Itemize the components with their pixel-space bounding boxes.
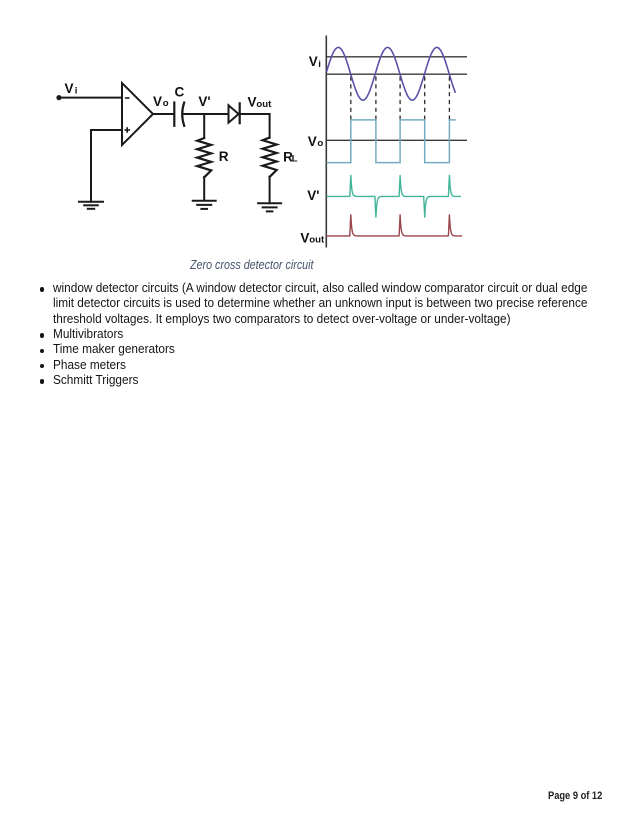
svg-text:out: out xyxy=(309,235,325,246)
svg-text:V': V' xyxy=(198,94,210,109)
svg-text:L: L xyxy=(292,154,298,165)
svg-text:R: R xyxy=(219,149,229,164)
svg-text:out: out xyxy=(256,99,272,110)
svg-text:i: i xyxy=(75,85,78,96)
svg-text:o: o xyxy=(163,98,169,109)
svg-text:V: V xyxy=(300,230,309,245)
svg-text:V: V xyxy=(65,81,74,96)
svg-text:V: V xyxy=(309,54,318,69)
svg-text:V: V xyxy=(308,134,317,149)
svg-text:V: V xyxy=(153,94,162,109)
svg-text:C: C xyxy=(175,85,185,100)
svg-text:V': V' xyxy=(307,188,319,203)
svg-text:i: i xyxy=(318,59,321,70)
svg-text:o: o xyxy=(317,138,323,149)
svg-text:V: V xyxy=(248,95,257,110)
